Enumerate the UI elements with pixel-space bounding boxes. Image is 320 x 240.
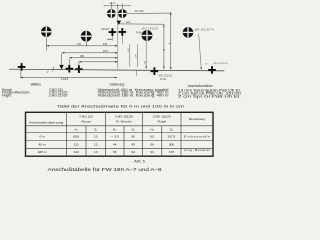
svg-text:2 cm Spr.Gr.Patr.Üb.El.: 2 cm Spr.Gr.Patr.Üb.El. bbox=[178, 94, 241, 98]
Rw line bbox=[119, 23, 164, 25]
under-datum dimension 1313 bbox=[20, 77, 117, 79]
svg-text:Anschußtabelle für FW 190 A–7: Anschußtabelle für FW 190 A–7 und A–8 bbox=[48, 167, 163, 172]
section mark on datum bbox=[53, 67, 54, 72]
svg-text:MG 151/20 Fl: MG 151/20 Fl bbox=[214, 63, 229, 65]
svg-text:Anschußentfernung: Anschußentfernung bbox=[29, 120, 63, 124]
svg-text:Rumpf: Rumpf bbox=[81, 119, 90, 123]
svg-text:4°: 4° bbox=[47, 72, 49, 74]
justierung rows bbox=[98, 88, 169, 98]
svg-text:1313: 1313 bbox=[61, 77, 69, 81]
svg-text:Fl. Wurzeln: Fl. Wurzeln bbox=[116, 119, 132, 123]
impact plus d bbox=[109, 28, 117, 36]
svg-text:180 m: 180 m bbox=[38, 150, 47, 154]
reference line from C4 bbox=[127, 12, 171, 14]
svg-text:Einbaumaße: Einbaumaße bbox=[184, 135, 210, 139]
svg-text:Ab 109: Ab 109 bbox=[134, 9, 144, 13]
svg-text:975: 975 bbox=[103, 43, 108, 46]
waffen rows bbox=[2, 88, 68, 98]
dimension line L3 bbox=[69, 57, 117, 59]
svg-text:13: 13 bbox=[94, 134, 98, 138]
vertical dimension V1 bbox=[163, 24, 165, 69]
dimension line L4 bbox=[79, 61, 118, 63]
svg-text:6,5: 6,5 bbox=[150, 134, 155, 138]
svg-text:Bemerkung: Bemerkung bbox=[189, 117, 205, 121]
table header texts bbox=[29, 115, 205, 125]
svg-text:Waffen:: Waffen: bbox=[31, 83, 42, 87]
svg-text:0 m: 0 m bbox=[39, 135, 45, 139]
svg-text:Tafel der Anschußmaße für 0 m: Tafel der Anschußmaße für 0 m und 100 m … bbox=[57, 105, 184, 109]
svg-text:MG 151/20: MG 151/20 bbox=[159, 73, 173, 77]
svg-text:2 MG 151/20: 2 MG 151/20 bbox=[115, 115, 133, 119]
top dimension line bbox=[104, 3, 132, 9]
svg-text:MG131: MG131 bbox=[102, 28, 111, 31]
extension above plus c bbox=[78, 62, 80, 66]
extension above t2 bbox=[61, 53, 63, 64]
svg-text:2 MG 131: 2 MG 131 bbox=[79, 115, 93, 119]
svg-text:MG 151/20 Fl: MG 151/20 Fl bbox=[195, 27, 214, 31]
small dim under pluses bbox=[107, 36, 122, 44]
impact plus g bbox=[208, 66, 216, 74]
svg-text:2 MG 151/20: 2 MG 151/20 bbox=[153, 115, 171, 119]
gun symbol MG131 left (C3) bbox=[107, 9, 116, 18]
table data rows bbox=[38, 134, 211, 154]
dimension line L2 bbox=[62, 52, 118, 54]
svg-text:94: 94 bbox=[150, 150, 154, 154]
svg-text:eing. Beispiel: eing. Beispiel bbox=[184, 148, 210, 152]
munition rows bbox=[178, 89, 241, 99]
impact plus c bbox=[75, 65, 83, 73]
svg-text:65: 65 bbox=[113, 150, 117, 154]
svg-text:MG 151/20: MG 151/20 bbox=[142, 26, 159, 30]
right dim vertical x130 bbox=[129, 44, 131, 67]
extension above plus b bbox=[68, 59, 70, 65]
svg-text:85,8: 85,8 bbox=[73, 134, 79, 138]
svg-text:Flügel: Flügel bbox=[158, 119, 167, 123]
svg-text:460: 460 bbox=[80, 55, 85, 58]
subheader H/S bbox=[75, 127, 174, 131]
svg-text:14,8: 14,8 bbox=[109, 1, 115, 5]
svg-text:308: 308 bbox=[169, 142, 174, 146]
impact plus f bbox=[151, 67, 159, 75]
gun symbol wing right (C6) bbox=[183, 27, 194, 38]
extension below plus a bbox=[20, 69, 22, 79]
gun symbol wing-root right (C5) bbox=[142, 30, 153, 41]
right dim vertical x137 bbox=[136, 44, 138, 67]
sight triangle t1 bbox=[117, 21, 122, 25]
extension below C2 bbox=[85, 42, 87, 47]
svg-text:Fl.Wu.: Fl.Wu. bbox=[160, 78, 167, 81]
extension below C1 bbox=[45, 37, 47, 50]
svg-text:Justierung:: Justierung: bbox=[109, 83, 125, 87]
extension below C5 bbox=[145, 41, 147, 69]
table frame bbox=[26, 112, 214, 156]
sight triangle t2 bbox=[59, 65, 63, 70]
table inner lines bbox=[26, 112, 214, 156]
svg-text:Fl.Wu.: Fl.Wu. bbox=[136, 33, 143, 35]
svg-text:80: 80 bbox=[131, 134, 135, 138]
svg-text:80 m: 80 m bbox=[39, 142, 46, 146]
svg-text:44: 44 bbox=[113, 142, 117, 146]
gun symbol wing-root left (C2) bbox=[81, 31, 92, 42]
impact plus a bbox=[18, 63, 26, 71]
svg-text:Anschußmunition:: Anschußmunition: bbox=[188, 84, 214, 88]
impact plus e bbox=[119, 28, 127, 36]
centerline bbox=[117, 5, 119, 69]
vertical dimension V2 bbox=[170, 12, 172, 70]
svg-text:140: 140 bbox=[74, 150, 79, 154]
svg-text:13: 13 bbox=[94, 142, 98, 146]
svg-text:S₁: S₁ bbox=[94, 127, 97, 131]
svg-text:13: 13 bbox=[94, 150, 98, 154]
svg-text:4°: 4° bbox=[205, 64, 207, 66]
dimension line L1 bbox=[46, 45, 117, 47]
extension below C6 label bbox=[199, 34, 202, 70]
svg-text:237,5: 237,5 bbox=[168, 134, 176, 138]
svg-text:178: 178 bbox=[169, 150, 174, 154]
svg-text:Flügel:: Flügel: bbox=[2, 94, 12, 98]
datum line bbox=[9, 69, 224, 71]
gun symbol MG131 right (C4) bbox=[118, 9, 127, 18]
extension below datum x136 bbox=[135, 71, 137, 76]
svg-text:121: 121 bbox=[74, 142, 79, 146]
gun symbol wing left (C1) bbox=[41, 27, 52, 38]
svg-text:1107: 1107 bbox=[103, 50, 109, 53]
svg-text:— 3,5: — 3,5 bbox=[111, 134, 120, 138]
svg-text:2 MG 151/20: 2 MG 151/20 bbox=[49, 94, 68, 98]
svg-text:Visierschuß 180 m, Kreuzung: 4: Visierschuß 180 m, Kreuzung: 400 m bbox=[98, 94, 169, 98]
svg-text:85: 85 bbox=[131, 142, 135, 146]
svg-text:50: 50 bbox=[150, 142, 154, 146]
impact plus b bbox=[66, 65, 74, 73]
svg-text:4°: 4° bbox=[169, 43, 171, 45]
svg-text:670: 670 bbox=[77, 43, 82, 46]
svg-text:94: 94 bbox=[131, 150, 135, 154]
svg-text:Abb. 5: Abb. 5 bbox=[134, 160, 145, 164]
svg-text:H₁: H₁ bbox=[75, 128, 78, 132]
